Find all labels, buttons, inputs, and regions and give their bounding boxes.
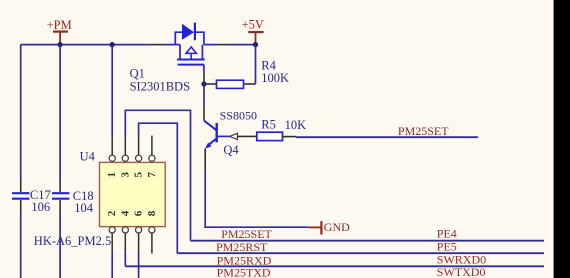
svg-text:SS8050: SS8050 [220,109,257,123]
resistor R4 [204,80,256,88]
svg-text:+5V: +5V [242,17,264,31]
svg-text:R5: R5 [261,118,276,132]
wire pin2 down [111,254,113,278]
svg-text:104: 104 [74,201,94,215]
capacitor C18 [52,45,69,278]
wire emitter to GND [205,170,309,227]
svg-text:SI2301BDS: SI2301BDS [130,79,190,93]
wire main horizontal +PM rail [21,44,152,46]
junction +5V [253,42,258,47]
svg-text:R4: R4 [261,58,276,72]
svg-text:PE5: PE5 [437,240,457,254]
transistor Q1 SI2301BDS (P-MOSFET) [166,23,217,71]
svg-text:106: 106 [31,200,50,214]
svg-text:100K: 100K [261,71,289,85]
junction gate/R4/collector [201,81,206,86]
pin Q4 base lead (black) [237,135,256,137]
svg-text:PM25TXD: PM25TXD [217,266,271,278]
svg-text:Q1: Q1 [130,66,145,80]
svg-text:+PM: +PM [47,18,72,32]
wire pin5 route to PM25RST bus [139,123,178,253]
pin Q4 emitter (black) [204,149,206,170]
svg-text:1: 1 [106,172,118,178]
svg-text:PM25SET: PM25SET [221,227,272,241]
svg-text:7: 7 [146,171,158,177]
wire pin4 to PM25RXD bus [124,254,126,267]
svg-text:PM25SET: PM25SET [398,124,449,138]
power +5V [242,17,264,44]
svg-text:PE4: PE4 [437,227,457,241]
svg-text:SWTXD0: SWTXD0 [437,265,486,278]
capacitor C17 [12,45,29,278]
resistor R5 [257,132,296,140]
pin 7 [146,136,158,178]
svg-text:Q4: Q4 [223,143,239,157]
svg-text:4: 4 [119,210,131,216]
power +PM [47,18,72,44]
junction pin1 riser [110,42,115,47]
svg-text:5: 5 [133,171,145,177]
pin 8 [146,210,158,253]
wire pin1 riser [111,45,113,136]
svg-text:U4: U4 [80,150,96,164]
pin 6 [133,210,145,253]
pin 2 [106,210,118,253]
pin Q1 drain (black) [152,44,166,46]
pin 5 [133,136,145,178]
wire gate node down to Q4 collector [203,84,205,107]
connector U4 body [100,162,166,226]
pin 4 [119,210,131,253]
pin 3 [119,136,131,178]
svg-text:PM25RST: PM25RST [216,240,268,254]
wire bus PM25RXD/SWRXD0 [125,265,544,267]
svg-text:GND: GND [324,220,350,234]
wire pin3 route to PM25SET bus [125,110,190,240]
svg-text:2: 2 [106,210,118,216]
pin arrow Q4 base (open) [230,133,238,139]
pin 1 [106,136,118,178]
pin Q1 source (black) [217,44,230,46]
svg-text:6: 6 [133,210,145,216]
wire main rail right of Q1 [230,44,256,46]
pin Q1 gate (black) [203,71,205,82]
pin Q4 collector (black) [203,107,205,121]
junction +PM [58,42,63,47]
svg-text:8: 8 [146,210,158,216]
svg-text:HK-A6_PM2.5: HK-A6_PM2.5 [34,234,111,248]
wire pin6 down [138,254,140,278]
wire bus PM25RST/PE5 [177,252,544,254]
wire bus PM25SET/PE4 [191,240,545,242]
transistor Q4 SS8050 (NPN) [204,121,229,149]
black side band [554,0,570,278]
ground GND [309,220,350,235]
wire PM25SET (top) [296,136,478,138]
wire +5V to R4 [255,45,257,84]
svg-text:10K: 10K [285,118,307,132]
svg-text:3: 3 [119,171,131,177]
